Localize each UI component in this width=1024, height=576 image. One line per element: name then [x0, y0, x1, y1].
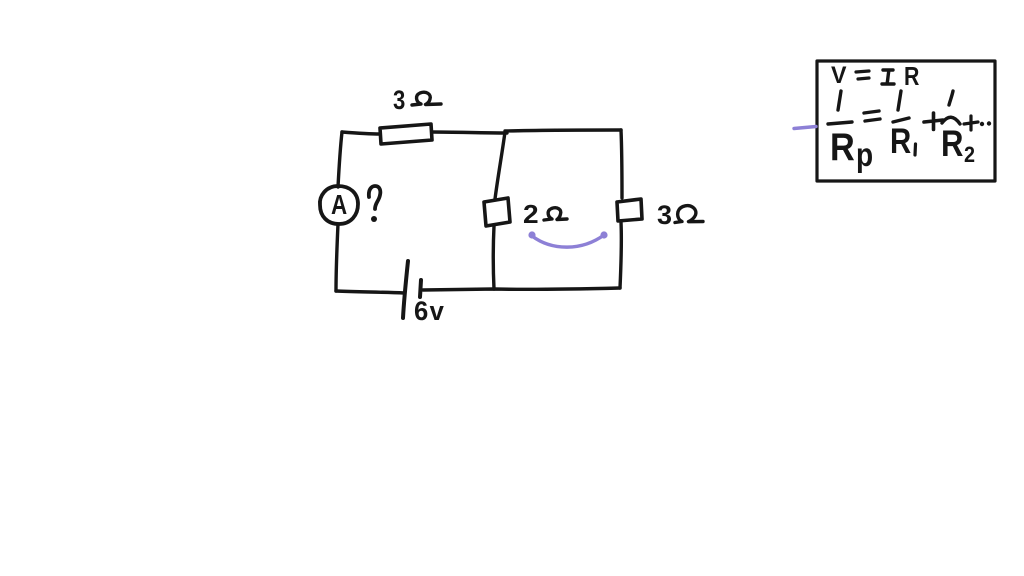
resistor R2 body (2 ohm, middle) [484, 198, 510, 226]
wire: top-left corner to ammeter top (left branch upper) [338, 132, 342, 187]
resistor R1 body (3 ohm, top) [380, 124, 432, 144]
svg-text:V: V [831, 63, 847, 89]
formula trailing plus sign [964, 116, 978, 130]
svg-text:3: 3 [657, 200, 672, 230]
svg-text:2: 2 [964, 143, 975, 167]
wire: top wire segment resistor R1 to node T [432, 132, 507, 133]
purple arc left end dot [528, 231, 535, 238]
svg-text:R: R [890, 122, 911, 161]
formula line1 equals sign [856, 71, 869, 79]
wire: top wire segment node T to top-right corner [505, 130, 621, 131]
wire: ammeter bottom to bottom-left corner (left branch lower) [336, 224, 338, 291]
label ? (unknown current) [369, 186, 381, 209]
wire: right vertical lower (resistor R3 down to bottom-right corner) [620, 222, 621, 288]
formula line1 letter I (serif) [882, 70, 894, 84]
svg-text:2: 2 [523, 200, 539, 229]
svg-text:A: A [331, 190, 347, 221]
label ? dot [371, 216, 377, 222]
svg-text:R: R [830, 125, 855, 169]
formula 1/R2 fraction bar (hat) [942, 117, 960, 124]
formula 1/R1 subscript 1 [913, 144, 917, 155]
formula equals sign (main) [864, 111, 880, 121]
wire: middle vertical lower (resistor R2 down to bottom wire) [492, 226, 496, 289]
label 3 ohm (top): omega glyph [412, 92, 441, 105]
formula 1/Rp numerator 1 [838, 91, 841, 110]
svg-text:R: R [904, 62, 919, 92]
svg-text:R: R [941, 124, 963, 165]
formula plus sign (main) [924, 113, 943, 130]
wire: top wire left segment (corner to resistor R1) [342, 132, 380, 134]
formula box frame [817, 61, 995, 181]
resistor R3 body (3 ohm, right) [617, 199, 642, 221]
svg-text:3: 3 [393, 86, 405, 116]
formula trailing dot 2 [987, 121, 991, 125]
svg-text:p: p [856, 137, 873, 174]
wire: right vertical upper (top-right corner down to resistor R3) [621, 130, 622, 198]
formula 1/R1 numerator 1 [898, 91, 901, 110]
label 3 ohm (right): omega glyph [675, 206, 703, 223]
purple arc right end dot [600, 231, 607, 238]
wire: bottom wire right segment (battery to bottom-right corner) [423, 288, 620, 290]
purple parallel-indicator arc between R2 and R3 [532, 235, 604, 247]
purple dash pointer left of formula box [794, 127, 816, 129]
formula trailing dot 1 [980, 122, 984, 126]
formula 1/R1 fraction bar [893, 118, 909, 122]
ammeter U1 circle [320, 186, 358, 224]
formula 1/R2 numerator 1 [949, 91, 953, 105]
formula 1/Rp fraction bar [828, 122, 852, 124]
wire: middle vertical upper (node T down to resistor R2) [495, 132, 505, 199]
battery V1 long plate [403, 261, 408, 318]
label 2 ohm: omega glyph [544, 208, 567, 220]
svg-text:6v: 6v [414, 295, 445, 326]
battery V1 short plate [420, 280, 421, 297]
wire: bottom wire left segment (bottom-left corner to battery) [336, 291, 404, 293]
